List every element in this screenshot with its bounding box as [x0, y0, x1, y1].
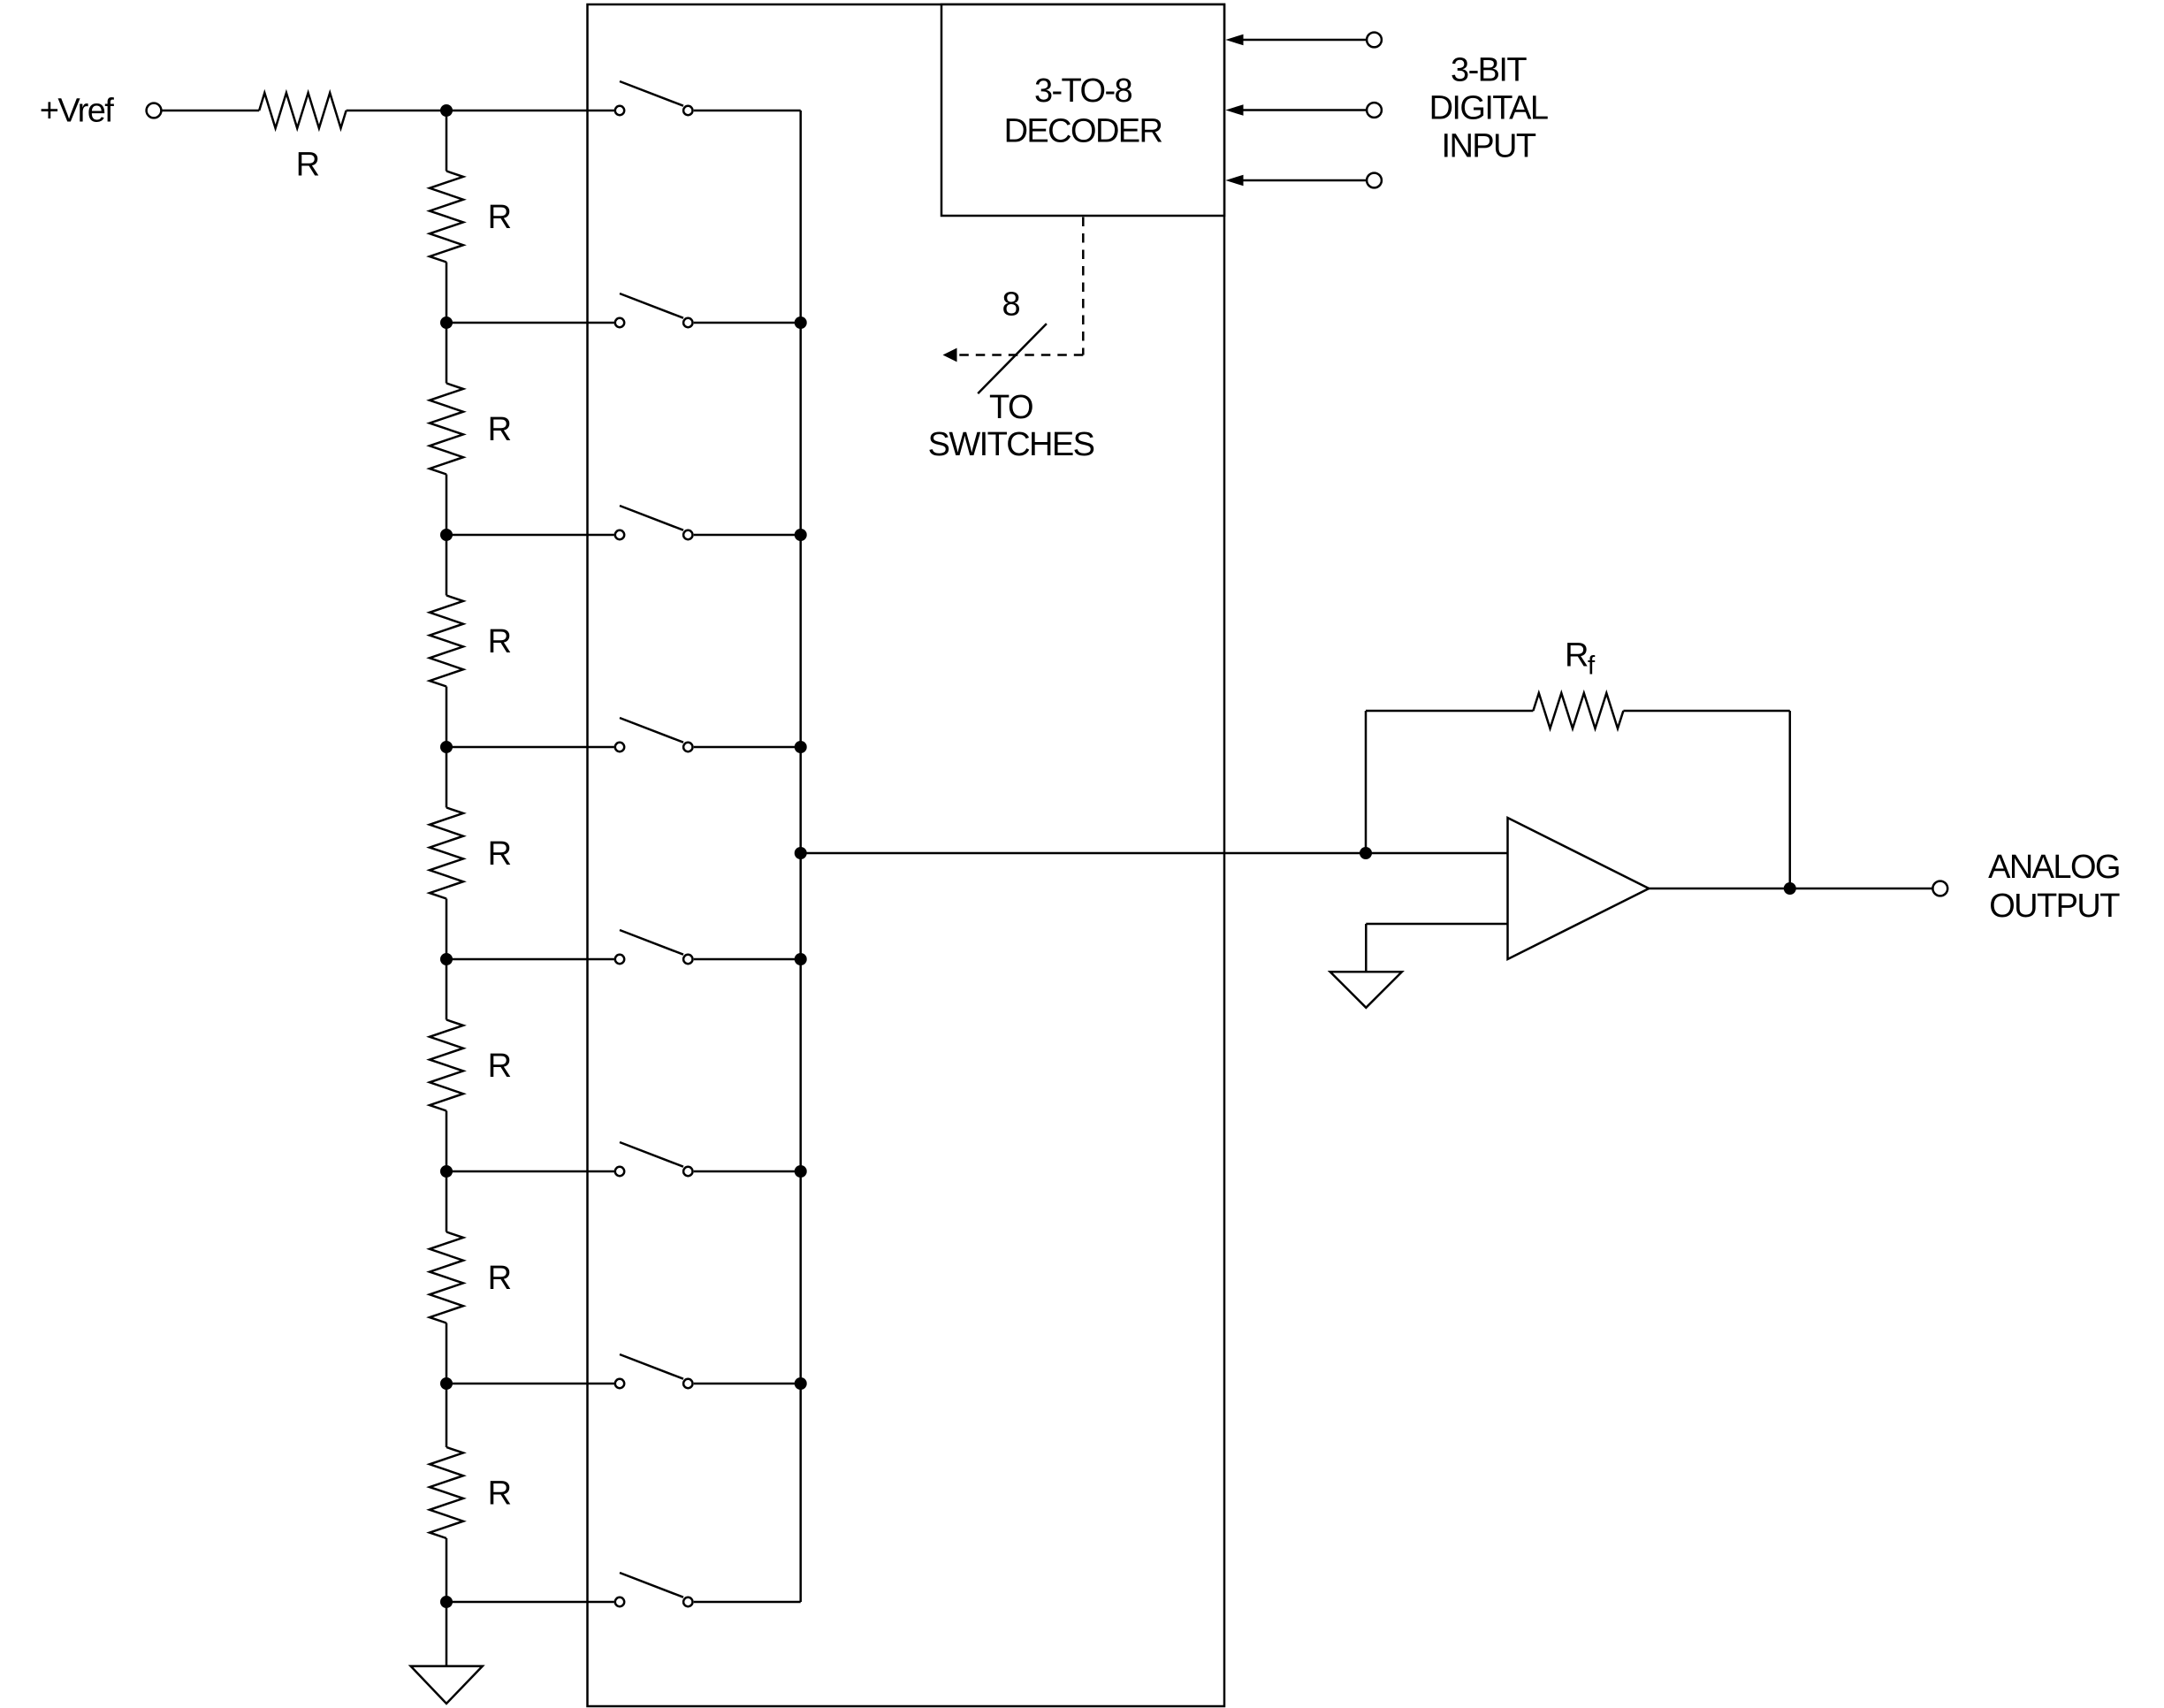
resistor R1 (series input) — [259, 93, 346, 128]
terminal analog output — [1932, 881, 1947, 896]
wire switch S6 to bus — [694, 1170, 801, 1173]
terminal digital input D0 — [1367, 173, 1382, 188]
resistor R7 (ladder) — [430, 1232, 463, 1323]
node 1 ladder junction — [440, 104, 453, 117]
resistor R3 (ladder) — [430, 384, 463, 475]
wire node 5 to switch S5 — [446, 958, 614, 961]
svg-text:3-TO-8: 3-TO-8 — [1034, 72, 1132, 110]
svg-text:R: R — [488, 1475, 511, 1513]
wire resistor R8 to node 8 — [446, 1538, 448, 1602]
svg-text:SWITCHES: SWITCHES — [928, 426, 1094, 463]
junction op-amp input node — [1360, 847, 1372, 859]
wire node 8 to switch S8 — [446, 1601, 614, 1604]
wire node 4 to switch S4 — [446, 746, 614, 749]
wire op-amp non-inverting input — [1366, 923, 1507, 926]
wire non-inverting to ground — [1365, 924, 1368, 972]
wire node 8 to ground — [446, 1602, 448, 1666]
svg-text:DIGITAL: DIGITAL — [1429, 90, 1548, 127]
resistor R6 (ladder) — [430, 1020, 463, 1111]
junction bus row 5 — [795, 953, 807, 965]
svg-text:Rf: Rf — [1565, 637, 1596, 681]
svg-text:R: R — [488, 623, 511, 660]
svg-text:R: R — [296, 146, 319, 183]
wire node 7 to resistor R8 — [446, 1384, 448, 1447]
terminal digital input D1 — [1367, 103, 1382, 118]
wire resistor R2 to node 2 — [446, 263, 448, 324]
wire resistor R5 to node 5 — [446, 899, 448, 960]
wire node 1 to resistor R2 — [446, 111, 448, 172]
node 4 ladder junction — [440, 741, 453, 753]
wire digital input D2 — [1241, 39, 1367, 42]
wire switch S8 to bus — [694, 1601, 801, 1604]
label 3-BIT DIGITAL INPUT — [1429, 52, 1548, 165]
wire node 5 to resistor R6 — [446, 959, 448, 1020]
svg-text:R: R — [488, 1260, 511, 1297]
wire node 3 to resistor R4 — [446, 535, 448, 596]
node 5 ladder junction — [440, 953, 453, 965]
switch S4 — [615, 718, 693, 751]
svg-text:R: R — [488, 199, 511, 236]
wire digital input D1 — [1241, 109, 1367, 111]
switch S6 — [615, 1142, 693, 1176]
junction op-amp output node — [1784, 882, 1796, 895]
wire feedback left vertical — [1365, 711, 1368, 853]
wire digital input D0 — [1241, 179, 1367, 182]
svg-text:R: R — [488, 1048, 511, 1085]
wire feedback right vertical — [1789, 711, 1792, 888]
op-amp U2 — [1508, 818, 1650, 959]
dashed control bus from decoder — [957, 217, 1083, 355]
resistor R8 (ladder) — [430, 1447, 463, 1538]
wire feedback top rail left — [1366, 710, 1533, 713]
control bus arrowhead — [943, 348, 957, 362]
node 7 ladder junction — [440, 1377, 453, 1390]
wire switch output bus — [799, 111, 802, 1602]
wire feedback top rail right — [1623, 710, 1789, 713]
wire node 4 to resistor R5 — [446, 747, 448, 808]
resistor Rf (feedback) — [1533, 693, 1623, 728]
junction bus output tap — [795, 847, 807, 859]
junction bus row 3 — [795, 529, 807, 541]
wire switch S7 to bus — [694, 1383, 801, 1385]
wire node 3 to switch S3 — [446, 534, 614, 537]
junction bus row 2 — [795, 316, 807, 329]
label TO SWITCHES — [928, 389, 1094, 463]
resistor R4 (ladder) — [430, 596, 463, 687]
node 3 ladder junction — [440, 529, 453, 541]
wire switch S5 to bus — [694, 958, 801, 961]
ground (op-amp) — [1330, 972, 1402, 1008]
junction bus row 4 — [795, 741, 807, 753]
resistor R5 (ladder) — [430, 808, 463, 899]
label ANALOG OUTPUT — [1988, 849, 2120, 925]
switch S1 — [615, 81, 693, 115]
svg-text:ANALOG: ANALOG — [1988, 849, 2120, 886]
digital input D0 arrowhead — [1225, 175, 1243, 187]
svg-text:TO: TO — [989, 389, 1032, 426]
wire R1 to node 1 — [347, 110, 614, 112]
wire switch S1 to bus — [694, 110, 801, 112]
wire node 6 to switch S6 — [446, 1170, 614, 1173]
junction bus row 7 — [795, 1377, 807, 1390]
junction bus row 6 — [795, 1165, 807, 1178]
wire resistor R6 to node 6 — [446, 1111, 448, 1172]
wire resistor R3 to node 3 — [446, 475, 448, 536]
wire bus to op-amp inverting input — [801, 852, 1508, 855]
svg-text:INPUT: INPUT — [1441, 128, 1535, 165]
node 6 ladder junction — [440, 1165, 453, 1178]
svg-text:8: 8 — [1002, 286, 1020, 324]
bus width slash — [978, 324, 1047, 393]
node 2 ladder junction — [440, 316, 453, 329]
switch S3 — [615, 506, 693, 539]
svg-text:DECODER: DECODER — [1004, 113, 1162, 150]
wire switch S2 to bus — [694, 322, 801, 324]
resistor R2 (ladder) — [430, 172, 463, 263]
wire node 6 to resistor R7 — [446, 1171, 448, 1232]
svg-text:3-BIT: 3-BIT — [1451, 52, 1527, 89]
wire switch S4 to bus — [694, 746, 801, 749]
decoder U1 box — [941, 4, 1224, 216]
svg-text:+Vref: +Vref — [40, 92, 115, 129]
wire node 2 to switch S2 — [446, 322, 614, 324]
digital input D2 arrowhead — [1225, 34, 1243, 46]
terminal +Vref — [147, 103, 162, 118]
wire node 7 to switch S7 — [446, 1383, 614, 1385]
switch block enclosure box — [588, 4, 1225, 1706]
wire +Vref to R1 — [162, 110, 259, 112]
svg-text:R: R — [488, 411, 511, 448]
terminal digital input D2 — [1367, 33, 1382, 48]
svg-text:OUTPUT: OUTPUT — [1989, 888, 2120, 925]
wire op-amp output — [1649, 888, 1932, 890]
node 8 ladder junction — [440, 1596, 453, 1608]
wire node 2 to resistor R3 — [446, 323, 448, 384]
ground (ladder) — [411, 1666, 483, 1704]
switch S5 — [615, 930, 693, 964]
switch S2 — [615, 294, 693, 327]
wire switch S3 to bus — [694, 534, 801, 537]
svg-text:R: R — [488, 835, 511, 873]
wire resistor R7 to node 7 — [446, 1323, 448, 1384]
decoder U1 label — [1004, 72, 1162, 150]
switch S8 — [615, 1573, 693, 1606]
switch S7 — [615, 1354, 693, 1388]
wire resistor R4 to node 4 — [446, 687, 448, 748]
digital input D1 arrowhead — [1225, 104, 1243, 116]
